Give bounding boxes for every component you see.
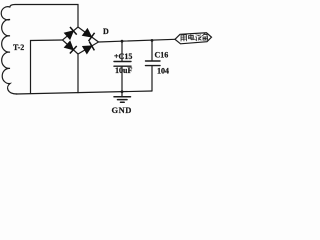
svg-text:GND: GND	[112, 105, 132, 115]
svg-text:D: D	[103, 27, 109, 36]
svg-text:C16: C16	[155, 51, 169, 60]
svg-text:+C15: +C15	[114, 52, 132, 61]
svg-text:104: 104	[157, 67, 169, 76]
svg-text:T-2: T-2	[13, 43, 24, 52]
svg-text:10uF: 10uF	[115, 66, 132, 75]
